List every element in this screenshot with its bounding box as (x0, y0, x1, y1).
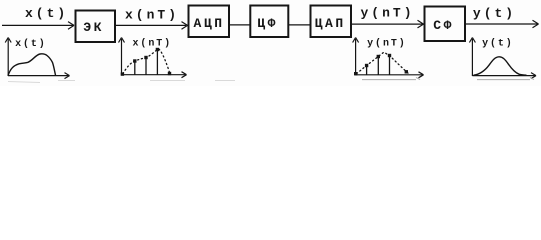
plot y(nT): horizontal axis (356, 72, 424, 78)
svg-text:ЦФ: ЦФ (257, 16, 278, 31)
plot y(nT): vertical axis (353, 38, 359, 76)
svg-text:y(nT): y(nT) (360, 6, 414, 21)
plot x(t): vertical axis (5, 38, 11, 77)
svg-text:x(t): x(t) (25, 6, 68, 21)
block ЭК (76, 11, 116, 43)
block СФ (425, 7, 466, 42)
faint scan speckles lower-left (8, 81, 235, 83)
plot x(nT): vertical axis (119, 38, 125, 76)
wire input x(t) (2, 22, 74, 30)
plot x(nT): sample dots (121, 48, 172, 76)
svg-text:x(nT): x(nT) (133, 37, 173, 49)
wire ЦФ to ЦАП (289, 24, 311, 26)
plot x(nT): dotted envelope (123, 49, 170, 74)
plot x(nT): horizontal axis (122, 72, 187, 78)
svg-text:y(nT): y(nT) (367, 37, 407, 49)
wire АЦП to ЦФ (230, 24, 250, 26)
plot x(t): horizontal axis (8, 73, 70, 79)
plot y(nT): dotted envelope (357, 52, 410, 74)
svg-text:y(t): y(t) (473, 6, 516, 21)
plot y(nT): sample dots (354, 54, 408, 76)
svg-text:x(nT): x(nT) (125, 8, 179, 23)
svg-text:ЦАП: ЦАП (315, 16, 346, 31)
block ЦАП (311, 6, 352, 38)
svg-text:СФ: СФ (433, 18, 454, 33)
plot x(t): signal curve (8, 54, 56, 76)
block ЦФ (250, 6, 288, 38)
plot y(t): signal curve (474, 57, 527, 75)
svg-text:ЭК: ЭК (83, 20, 104, 35)
scan ghost streak under y(nT) plot (362, 77, 420, 79)
plot y(t): horizontal axis (472, 73, 536, 79)
wire ЦАП to СФ (352, 20, 424, 28)
svg-text:y(t): y(t) (482, 38, 514, 50)
block АЦП (189, 6, 230, 38)
scan ghost streak under y(t) plot (477, 77, 534, 79)
svg-text:АЦП: АЦП (193, 16, 224, 31)
plot y(nT): sample stems (367, 56, 390, 75)
wire ЭК to АЦП (116, 22, 188, 30)
svg-text:x(t): x(t) (15, 38, 47, 50)
wire output y(t) (466, 20, 539, 28)
plot y(t): vertical axis (469, 38, 475, 77)
plot x(nT): sample stems (135, 50, 158, 75)
